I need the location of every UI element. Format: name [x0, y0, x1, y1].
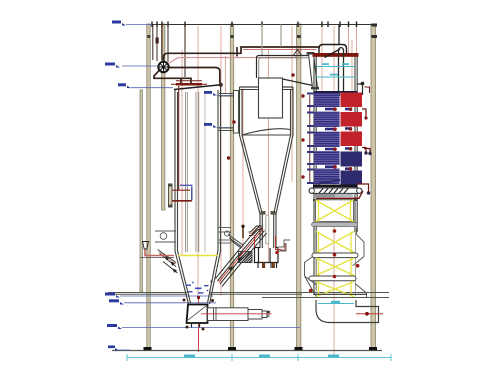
header stubs left of bundles: [307, 93, 314, 185]
backpass bottom line: [313, 293, 367, 295]
wall cooling loop blue/red: [173, 185, 192, 201]
hopper red dot: [197, 296, 200, 299]
red line under steam pipe: [243, 49, 316, 51]
main beam left: [108, 293, 389, 298]
hanger rods above cyclone: [261, 24, 263, 55]
beam right: [262, 297, 389, 299]
cyan level lines in backpass top: [317, 63, 356, 77]
drum right outlet pipe to roof: [169, 68, 220, 84]
cyan dim in duct: [318, 301, 354, 304]
tube bar 1: [312, 253, 358, 258]
return leg pipes to furnace: [216, 225, 267, 287]
gap markers red stars: [301, 94, 352, 178]
structural tan columns: [140, 24, 376, 350]
dipleg flange: [261, 211, 266, 215]
furnace inner verticals: [186, 92, 205, 252]
economizer yellow section 2: [316, 232, 354, 253]
maroon pipe below: [317, 191, 363, 198]
manhole bracket on left wall: [169, 185, 173, 207]
salmon centerlines: [182, 26, 352, 356]
header bar above furnace: [176, 83, 202, 86]
downcomer from drum: [154, 71, 191, 84]
bottom cyan dimension line: [127, 354, 391, 361]
feedwater pipes above drum: [153, 24, 185, 77]
top internal line: [314, 91, 358, 93]
left blue labels with leaders: [119, 25, 300, 351]
INTREX piping between loopseal and backpass: [279, 240, 291, 251]
right small pipe at top: [358, 84, 363, 95]
dipleg inner tube: [266, 215, 269, 244]
ash cooler tip: [267, 311, 270, 313]
top ticks: [152, 22, 357, 28]
ground line: [112, 350, 382, 352]
furnace roof: [174, 85, 221, 90]
yellow bed line: [178, 255, 218, 257]
cone top curve: [242, 129, 291, 135]
gas outlet duct cyclone to backpass: [257, 56, 314, 86]
hatched roller: [309, 188, 362, 193]
economizer yellow section 4: [316, 282, 354, 297]
downcomer pipes in backpass top: [339, 24, 344, 94]
capped brown pipe: [242, 227, 244, 238]
platform circles band: [155, 228, 231, 244]
cyclone inlet flange: [234, 91, 239, 134]
outlet duct bottom: [316, 300, 379, 323]
stair stub pipes: [249, 226, 263, 236]
maroon gap pipes right: [362, 109, 370, 153]
outlet flange tilted: [307, 52, 320, 89]
red and navy blocks: [341, 93, 363, 185]
hatched block: [239, 252, 253, 263]
silver band: [315, 194, 353, 197]
gap header marks: [325, 108, 352, 170]
top datum line: [150, 24, 376, 26]
steam pipe drum to backpass: [164, 47, 321, 61]
drum: [158, 62, 168, 72]
silver band 2: [312, 223, 358, 227]
spreader chute: [228, 235, 243, 249]
roof link line: [219, 83, 223, 87]
cyclone roof: [240, 86, 294, 88]
roof label left: [118, 83, 173, 88]
furnace left wall: [175, 90, 189, 304]
red line right: [356, 313, 383, 315]
backpass outer walls: [314, 55, 357, 292]
ash cooler: [208, 308, 268, 321]
red line above header: [176, 80, 202, 82]
fuel feed left side: [158, 250, 178, 274]
superheater purple bundles: [314, 93, 340, 185]
serpentine duct walls: [316, 228, 356, 296]
crossover duct: [319, 45, 347, 58]
top right riser pipes near cyclone exit: [236, 47, 238, 57]
backpass top maroon band: [313, 53, 359, 57]
pink saturated line: [169, 50, 301, 64]
feed chute with flag: [140, 242, 174, 258]
loop seal: [255, 248, 279, 269]
bed level blue dashes: [186, 280, 213, 293]
furnace: [174, 85, 221, 304]
column splice marks: [147, 35, 300, 38]
furnace right wall: [210, 86, 221, 305]
bottom of bundles black band: [313, 185, 357, 188]
vent triangle: [293, 50, 302, 57]
ash cooler red centerline: [201, 313, 272, 315]
column base pads: [144, 347, 378, 350]
vortex finder: [259, 78, 283, 118]
economizer yellow section 3: [316, 258, 354, 276]
navy diagonal: [318, 180, 340, 184]
maroon pipe lower right: [358, 184, 369, 192]
outer walls: [240, 87, 261, 248]
economizer yellow section 1: [316, 200, 354, 222]
tube bar 2: [309, 276, 356, 281]
serpentine duct outline: [305, 228, 367, 297]
windbox: [186, 305, 208, 331]
bundle header pipe: [309, 95, 311, 184]
furnace wall downcomer maroon: [178, 86, 180, 190]
cyclone inlet duct: [218, 94, 237, 131]
blue mid labels: [204, 91, 236, 128]
cyclone body: [240, 87, 294, 248]
